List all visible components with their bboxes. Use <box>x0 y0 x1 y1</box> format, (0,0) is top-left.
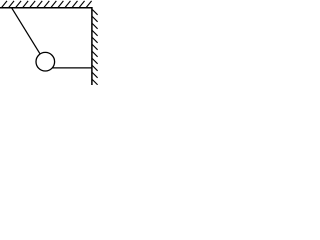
horizontal cord from ball to wall <box>52 67 92 69</box>
ceiling hatching <box>2 1 92 8</box>
wall line <box>91 7 93 85</box>
ball (circle) <box>36 52 55 71</box>
string from ceiling to ball <box>12 8 40 54</box>
ceiling line <box>0 7 92 9</box>
wall hatching <box>92 10 97 85</box>
